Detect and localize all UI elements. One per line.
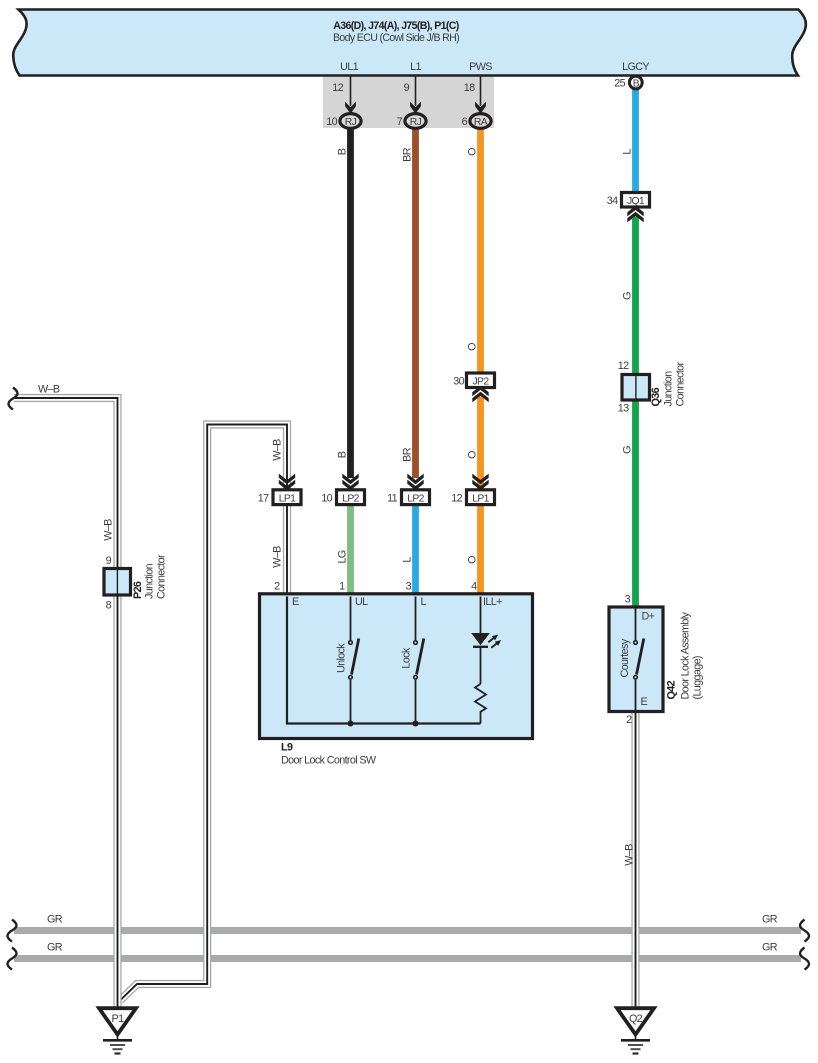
svg-text:LP1: LP1 — [472, 493, 489, 504]
svg-text:Body ECU (Cowl Side J/B RH): Body ECU (Cowl Side J/B RH) — [333, 32, 459, 44]
svg-text:L: L — [421, 596, 427, 608]
svg-text:9: 9 — [404, 82, 410, 94]
svg-text:W–B: W–B — [272, 546, 284, 568]
svg-text:Q42: Q42 — [666, 680, 678, 699]
svg-text:(Luggage): (Luggage) — [692, 656, 704, 699]
svg-text:GR: GR — [47, 914, 63, 926]
svg-text:G: G — [622, 446, 634, 454]
svg-text:12: 12 — [618, 360, 629, 372]
svg-text:11: 11 — [387, 492, 398, 504]
svg-text:B: B — [633, 79, 640, 90]
svg-text:Lock: Lock — [401, 647, 413, 668]
svg-text:18: 18 — [464, 82, 475, 94]
svg-text:E: E — [641, 696, 648, 708]
svg-text:W–B: W–B — [624, 844, 636, 866]
svg-text:G: G — [622, 292, 634, 300]
svg-text:8: 8 — [106, 600, 112, 612]
svg-text:12: 12 — [332, 82, 343, 94]
svg-text:ILL+: ILL+ — [483, 596, 502, 608]
svg-text:LP1: LP1 — [279, 493, 296, 504]
svg-text:9: 9 — [106, 555, 112, 567]
svg-text:L1: L1 — [410, 61, 421, 73]
svg-text:3: 3 — [625, 594, 631, 606]
svg-text:30: 30 — [453, 375, 464, 387]
svg-text:O: O — [467, 556, 479, 564]
svg-text:GR: GR — [762, 914, 778, 926]
svg-text:LGCY: LGCY — [622, 61, 649, 73]
svg-text:O: O — [467, 343, 479, 351]
svg-text:Q2: Q2 — [629, 1013, 643, 1025]
svg-text:JQ1: JQ1 — [627, 196, 645, 207]
svg-text:W–B: W–B — [38, 384, 60, 396]
svg-text:7: 7 — [397, 116, 403, 128]
svg-text:2: 2 — [626, 714, 632, 726]
svg-text:A36(D), J74(A), J75(B), P1(C): A36(D), J74(A), J75(B), P1(C) — [333, 20, 458, 32]
svg-text:RA: RA — [474, 117, 488, 128]
svg-text:O: O — [467, 148, 479, 156]
svg-text:E: E — [292, 596, 299, 608]
svg-text:UL: UL — [355, 596, 368, 608]
svg-text:O: O — [467, 451, 479, 459]
svg-text:10: 10 — [326, 116, 337, 128]
svg-text:LG: LG — [337, 550, 349, 563]
svg-text:10: 10 — [321, 492, 332, 504]
svg-text:25: 25 — [614, 78, 625, 90]
svg-text:Door Lock Control SW: Door Lock Control SW — [281, 755, 377, 767]
svg-text:RJ: RJ — [345, 117, 357, 128]
svg-text:B: B — [337, 148, 349, 155]
svg-text:GR: GR — [762, 942, 778, 954]
svg-text:UL1: UL1 — [340, 61, 359, 73]
svg-text:4: 4 — [471, 581, 477, 593]
svg-text:13: 13 — [618, 403, 629, 415]
svg-text:P26: P26 — [132, 581, 144, 599]
svg-text:RJ: RJ — [410, 117, 422, 128]
svg-text:P1: P1 — [112, 1013, 125, 1025]
svg-text:W–B: W–B — [272, 439, 284, 461]
svg-text:Junction: Junction — [144, 563, 156, 599]
svg-text:LP2: LP2 — [342, 493, 359, 504]
svg-text:3: 3 — [406, 581, 412, 593]
svg-text:Door Lock Assembly: Door Lock Assembly — [680, 612, 692, 700]
svg-text:Courtesy: Courtesy — [619, 638, 631, 677]
svg-text:17: 17 — [258, 492, 269, 504]
svg-text:D+: D+ — [642, 611, 655, 623]
svg-text:6: 6 — [462, 116, 468, 128]
svg-text:12: 12 — [451, 492, 462, 504]
svg-text:BR: BR — [402, 447, 414, 462]
svg-text:Unlock: Unlock — [336, 643, 348, 673]
svg-text:JP2: JP2 — [473, 376, 490, 387]
svg-text:W–B: W–B — [103, 519, 115, 541]
svg-text:Junction: Junction — [663, 371, 675, 407]
svg-text:Connector: Connector — [156, 554, 168, 599]
svg-text:B: B — [337, 451, 349, 458]
svg-text:LP2: LP2 — [407, 493, 424, 504]
svg-text:GR: GR — [47, 942, 63, 954]
svg-text:34: 34 — [607, 195, 618, 207]
svg-text:Q36: Q36 — [650, 387, 662, 406]
svg-text:PWS: PWS — [469, 61, 492, 73]
svg-text:Connector: Connector — [675, 361, 687, 406]
svg-text:L9: L9 — [281, 742, 293, 754]
svg-text:1: 1 — [339, 581, 345, 593]
svg-text:L: L — [622, 149, 634, 155]
svg-text:BR: BR — [402, 147, 414, 162]
svg-text:L: L — [402, 557, 414, 563]
svg-text:2: 2 — [274, 581, 280, 593]
